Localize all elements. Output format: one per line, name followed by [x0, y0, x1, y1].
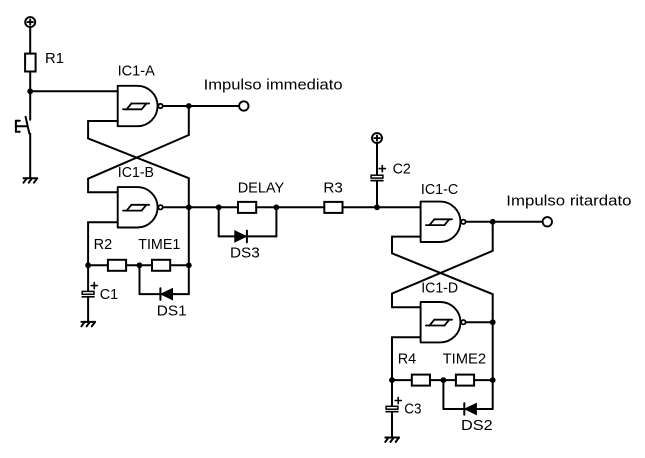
wire IC1-D input B stub	[392, 336, 421, 338]
svg-text:C3: C3	[404, 401, 421, 418]
resistor DELAY	[238, 202, 256, 213]
svg-text:TIME2: TIME2	[443, 350, 487, 367]
wire DS3 branch	[219, 207, 277, 236]
power supply +V symbol (left)	[25, 17, 35, 27]
wire C1 to ground	[87, 298, 89, 322]
wire +V to R1	[29, 27, 31, 54]
node C2 junction	[374, 204, 380, 210]
polarity + of C1	[91, 283, 97, 289]
wire IC1-B input B down to timing node	[87, 222, 89, 265]
wire C3 to ground	[391, 412, 393, 437]
svg-text:R4: R4	[398, 350, 417, 367]
wire cross-coupling: IC1-A out to IC1-B in	[88, 106, 189, 192]
resistor R2	[108, 260, 126, 271]
wire R4 to TIME2 node	[430, 379, 456, 381]
wire node to R2	[88, 264, 108, 266]
node junction at R1/switch/IC1-A input	[27, 88, 33, 94]
svg-text:DS3: DS3	[230, 244, 260, 261]
wire +V to C2	[376, 143, 378, 175]
wire IC1-B output to DELAY	[189, 206, 238, 208]
svg-text:C1: C1	[100, 286, 118, 303]
svg-text:R2: R2	[94, 236, 113, 253]
svg-text:R1: R1	[45, 50, 64, 67]
svg-text:DS1: DS1	[157, 302, 187, 319]
output terminal Impulso ritardato	[543, 217, 552, 226]
svg-text:IC1-A: IC1-A	[118, 63, 155, 80]
svg-text:DS2: DS2	[461, 417, 493, 434]
node IC1-D output junction	[490, 319, 496, 325]
wire IC1-C output	[466, 221, 493, 223]
wire IC1-C input B stub	[392, 236, 421, 238]
node between R4 and TIME2	[441, 377, 447, 383]
nand gate IC1-A	[118, 86, 163, 126]
polarity + of C2	[379, 166, 385, 172]
wire R3 to IC1-C input A	[343, 206, 421, 208]
wire TIME2 to right node	[474, 379, 493, 381]
wire switch to ground	[29, 134, 31, 179]
power supply +V symbol (C2)	[372, 133, 382, 143]
svg-text:IC1-C: IC1-C	[421, 181, 458, 198]
capacitor C3 (electrolytic)	[386, 406, 398, 411]
svg-text:C2: C2	[393, 161, 411, 178]
wire DELAY to R3	[256, 206, 324, 208]
node IC1-B output junction	[186, 204, 192, 210]
ground (below C1)	[81, 322, 95, 326]
wire IC1-B output down to timing row	[188, 207, 190, 265]
wire DS2 branch	[443, 380, 492, 409]
wire IC1-A output to terminal	[189, 105, 239, 107]
wire node to C1	[87, 265, 89, 291]
wire node to C3	[391, 380, 393, 406]
nand gate IC1-B	[118, 187, 163, 227]
wire C2 to junction	[376, 181, 378, 207]
nand gate IC1-C	[421, 202, 466, 242]
resistor TIME1	[152, 260, 170, 271]
node IC1-A output junction	[186, 103, 192, 109]
wire IC1-D input B down to timing node	[391, 337, 393, 380]
wire cross-coupling: IC1-C out to IC1-D in	[392, 222, 493, 307]
wire cross-coupling: IC1-B out to IC1-A in	[88, 121, 189, 207]
pushbutton S1 actuator	[16, 121, 27, 132]
resistor R4	[412, 375, 430, 386]
wire IC1-A input B stub	[88, 120, 118, 122]
wire IC1-B input B stub	[88, 221, 118, 223]
wire IC1-D output down to timing row	[492, 322, 494, 380]
node IC1-C output junction	[490, 219, 496, 225]
resistor TIME2	[456, 375, 474, 386]
svg-text:DELAY: DELAY	[238, 180, 285, 197]
wire IC1-A output	[163, 105, 189, 107]
node timing row left (C1/R2)	[85, 262, 91, 268]
wire DS1 branch	[140, 265, 189, 294]
wire R1 to switch	[29, 72, 31, 120]
svg-text:IC1-B: IC1-B	[118, 164, 154, 181]
svg-text:IC1-D: IC1-D	[421, 279, 458, 296]
resistor R1	[25, 54, 35, 72]
svg-text:Impulso immediato: Impulso immediato	[204, 76, 343, 93]
diode DS1	[160, 288, 172, 300]
svg-text:TIME1: TIME1	[138, 236, 180, 253]
node timing row 2 left (C3/R4)	[389, 377, 395, 383]
resistor R3	[324, 202, 342, 213]
wire IC1-D output	[466, 321, 493, 323]
wire TIME1 to right node	[170, 264, 189, 266]
node DS3 branch right	[274, 204, 280, 210]
nand gate IC1-D	[421, 302, 466, 342]
node timing row 2 right	[490, 377, 496, 383]
wire cross-coupling: IC1-D out to IC1-C in	[392, 237, 493, 323]
wire junction to IC1-A input A	[30, 90, 118, 92]
ground (below switch)	[24, 178, 38, 182]
node timing row right	[186, 262, 192, 268]
node between R2 and TIME1	[137, 262, 143, 268]
polarity + of C3	[395, 397, 401, 403]
capacitor C1 (electrolytic)	[82, 291, 94, 296]
pushbutton S1 blade	[26, 117, 30, 134]
ground (below C3)	[385, 438, 399, 442]
diode DS3	[235, 231, 247, 243]
wire IC1-C output to terminal	[493, 221, 543, 223]
svg-text:Impulso ritardato: Impulso ritardato	[506, 192, 631, 209]
node DS3 branch left	[216, 204, 222, 210]
capacitor C2 (electrolytic)	[371, 175, 383, 180]
output terminal Impulso immediato	[239, 101, 248, 110]
svg-text:R3: R3	[323, 180, 342, 197]
wire IC1-B output	[163, 206, 189, 208]
wire R2 to TIME1 node	[126, 264, 152, 266]
diode DS2	[464, 403, 476, 415]
wire node to R4	[392, 379, 412, 381]
